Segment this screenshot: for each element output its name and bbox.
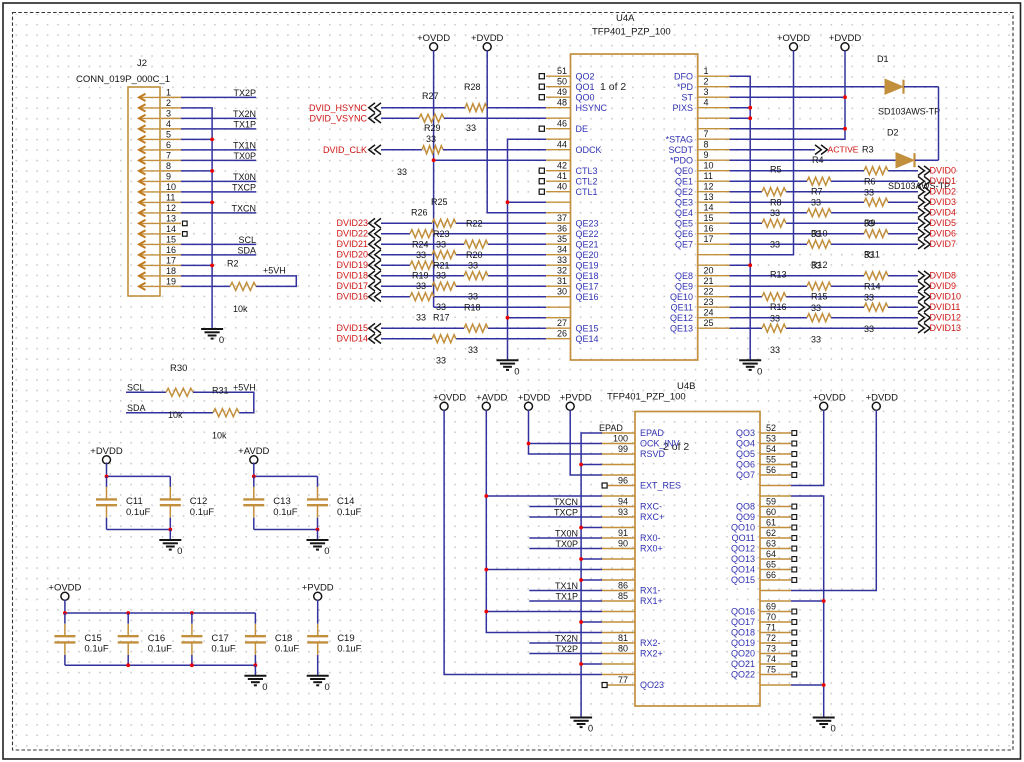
- svg-text:QE17: QE17: [576, 281, 599, 291]
- svg-text:19: 19: [166, 276, 176, 286]
- svg-text:DVID13: DVID13: [930, 323, 962, 333]
- resistor 33 on DVID6 line: [864, 230, 888, 238]
- svg-text:QE10: QE10: [670, 292, 693, 302]
- svg-text:8: 8: [166, 161, 171, 171]
- op-amp style IC body U4A: [571, 54, 698, 360]
- svg-text:CTL1: CTL1: [576, 187, 598, 197]
- wire SDA to R31: [126, 412, 213, 414]
- svg-text:QO18: QO18: [731, 628, 755, 638]
- svg-text:DVID5: DVID5: [930, 218, 957, 228]
- svg-text:+OVDD: +OVDD: [813, 393, 846, 404]
- net flag DVID4: [918, 208, 924, 218]
- wire TX0N from J2 pin 9: [181, 180, 256, 182]
- svg-text:EPAD: EPAD: [640, 428, 664, 438]
- junctions on C15-C18 bottom rail: [126, 663, 257, 667]
- svg-text:6: 6: [166, 140, 171, 150]
- svg-text:100: 100: [613, 434, 628, 444]
- U4A left pin numbers: [557, 66, 567, 339]
- svg-text:51: 51: [557, 66, 567, 76]
- svg-text:DVID16: DVID16: [336, 292, 368, 302]
- wire +DVDD down to unnumbered pin row16 right: [791, 410, 876, 591]
- U4A left pin names: [576, 71, 608, 344]
- svg-text:12: 12: [704, 182, 714, 192]
- svg-text:HSYNC: HSYNC: [576, 103, 608, 113]
- capacitor C12 0.1uF: [160, 476, 214, 529]
- svg-text:R28: R28: [464, 82, 481, 92]
- svg-text:RX2+: RX2+: [640, 649, 663, 659]
- svg-text:R31: R31: [212, 386, 229, 396]
- junctions on U4A right ground bus: [748, 106, 752, 267]
- svg-text:QE2: QE2: [675, 187, 693, 197]
- capacitor C17 0.1uF: [181, 613, 235, 665]
- U4A left resistor value labels 33: [416, 240, 478, 366]
- svg-text:QE3: QE3: [675, 197, 693, 207]
- svg-text:16: 16: [704, 224, 714, 234]
- svg-text:20: 20: [704, 266, 714, 276]
- svg-text:33: 33: [864, 188, 874, 198]
- net flag DVID2: [918, 187, 924, 197]
- junction DVDD row3: [843, 95, 847, 99]
- svg-text:0.1uF: 0.1uF: [84, 644, 108, 655]
- svg-text:DVID19: DVID19: [336, 260, 368, 270]
- svg-text:QE14: QE14: [576, 334, 599, 344]
- svg-text:3: 3: [704, 87, 709, 97]
- wire row5 to right ground bus: [730, 117, 751, 119]
- wire TX1N to U4B: [529, 590, 602, 592]
- svg-text:QO23: QO23: [640, 680, 664, 690]
- svg-text:*PD: *PD: [677, 82, 694, 92]
- resistor 33 on DVID2 line: [762, 188, 786, 196]
- svg-text:DVID_CLK: DVID_CLK: [323, 145, 367, 155]
- svg-text:7: 7: [166, 150, 171, 160]
- capacitor C14 0.1uF: [307, 476, 361, 529]
- svg-text:CTL2: CTL2: [576, 176, 598, 186]
- svg-text:R14: R14: [864, 282, 881, 292]
- svg-text:QE23: QE23: [576, 218, 599, 228]
- wire unnumbered row6 to DVDD rail: [730, 128, 846, 130]
- wire SCL to R30: [126, 391, 166, 393]
- svg-text:70: 70: [766, 612, 776, 622]
- svg-text:U4B: U4B: [677, 381, 695, 392]
- wire +PVDD to C19: [317, 600, 319, 614]
- svg-text:R22: R22: [466, 219, 483, 229]
- svg-text:0.1uF: 0.1uF: [337, 644, 361, 655]
- svg-text:QO4: QO4: [736, 439, 755, 449]
- svg-text:+AVDD: +AVDD: [476, 393, 507, 404]
- wire QE pin row17 to resistor: [730, 243, 808, 245]
- svg-text:33: 33: [416, 313, 426, 323]
- wire +DVDD rail down to unnumbered pin row7: [730, 50, 846, 139]
- svg-text:33: 33: [770, 208, 780, 218]
- svg-text:16: 16: [166, 245, 176, 255]
- U4A left resistor reference labels R17-R26: [411, 197, 483, 323]
- resistor 33 on DVID19 line: [410, 261, 434, 269]
- svg-text:QE15: QE15: [576, 323, 599, 333]
- svg-text:65: 65: [766, 560, 776, 570]
- wire +OVDD rail down U4A left: [433, 50, 435, 307]
- wire SCL from J2 pin 15: [181, 243, 256, 245]
- svg-text:QE16: QE16: [576, 292, 599, 302]
- U4A right resistor value labels 33: [770, 188, 874, 356]
- svg-text:DVID0: DVID0: [930, 166, 957, 176]
- svg-text:QO9: QO9: [736, 512, 755, 522]
- U4B left pin names: [640, 428, 681, 690]
- svg-text:R29: R29: [424, 123, 441, 133]
- svg-text:8: 8: [704, 140, 709, 150]
- svg-text:33: 33: [436, 356, 446, 366]
- wire unnumbered OVDD pin row23: [434, 306, 546, 308]
- svg-text:33: 33: [864, 293, 874, 303]
- svg-text:0: 0: [325, 682, 330, 693]
- junctions on J2 ground bus: [210, 138, 214, 268]
- svg-text:DVID6: DVID6: [930, 229, 957, 239]
- svg-text:10: 10: [704, 161, 714, 171]
- cap group C11/C12 bottom rail: [107, 529, 171, 531]
- svg-text:DVID4: DVID4: [930, 208, 957, 218]
- svg-text:17: 17: [704, 234, 714, 244]
- resistor R31 10k on SDA: [212, 386, 239, 441]
- svg-text:R23: R23: [433, 229, 450, 239]
- svg-text:+OVDD: +OVDD: [433, 393, 466, 404]
- svg-text:R19: R19: [412, 271, 429, 281]
- svg-text:R4: R4: [812, 155, 824, 165]
- wire unnumbered GND pin row24: [508, 317, 547, 319]
- wire GND corner unnumbered pin row7: [508, 139, 547, 360]
- resistor 33 on DVID10 line: [762, 293, 786, 301]
- svg-text:0: 0: [514, 367, 519, 378]
- wire DVID21 to QE resistor: [381, 243, 464, 245]
- U4B left pin stubs: [602, 433, 635, 685]
- wire DVID23 to QE resistor: [381, 222, 432, 224]
- resistor R29 33 on ODCK: [397, 123, 443, 177]
- svg-text:40: 40: [557, 182, 567, 192]
- capacitor C16 0.1uF: [118, 613, 172, 665]
- svg-text:DVID_HSYNC: DVID_HSYNC: [309, 103, 368, 113]
- wire QE pin row14 to resistor: [730, 212, 808, 214]
- wire +AVDD rail down to row20: [486, 410, 602, 633]
- svg-text:33: 33: [811, 229, 821, 239]
- svg-text:CTL3: CTL3: [576, 166, 598, 176]
- svg-text:7: 7: [704, 129, 709, 139]
- net flag DVID5: [918, 218, 924, 228]
- svg-text:91: 91: [618, 528, 628, 538]
- svg-text:TX0P: TX0P: [555, 539, 578, 549]
- resistor 33 on DVID8 line: [864, 272, 888, 280]
- svg-text:R17: R17: [433, 313, 450, 323]
- svg-text:QE5: QE5: [675, 218, 693, 228]
- svg-text:14: 14: [166, 224, 176, 234]
- svg-text:OCK_INV: OCK_INV: [640, 439, 680, 449]
- U4A right resistor reference labels R5-R16: [770, 165, 881, 313]
- net flag ACTIVE on SCDT: [730, 149, 816, 151]
- wire QE pin row12 to resistor: [730, 191, 763, 193]
- svg-text:60: 60: [766, 507, 776, 517]
- svg-text:15: 15: [704, 213, 714, 223]
- svg-text:QO17: QO17: [731, 617, 755, 627]
- svg-text:R16: R16: [770, 302, 787, 312]
- svg-text:QO0: QO0: [576, 92, 595, 102]
- svg-text:13: 13: [704, 192, 714, 202]
- svg-text:TXCN: TXCN: [554, 497, 579, 507]
- svg-text:TX2N: TX2N: [233, 109, 256, 119]
- svg-text:33: 33: [416, 281, 426, 291]
- wire GND unnumbered pin row23: [581, 663, 602, 665]
- U4A right pin stubs: [698, 76, 730, 328]
- connector J2 pin stubs: [161, 97, 181, 286]
- svg-text:34: 34: [557, 245, 567, 255]
- wire TXCP to U4B: [529, 516, 602, 518]
- svg-text:QO20: QO20: [731, 649, 755, 659]
- svg-text:QO12: QO12: [731, 544, 755, 554]
- wire QE pin row16 to resistor: [730, 233, 865, 235]
- wire unnumbered row25 right to ground bus: [791, 684, 824, 686]
- wire R27 to unnumbered pin row5: [444, 117, 546, 119]
- svg-text:QO14: QO14: [731, 565, 755, 575]
- svg-text:DVID23: DVID23: [336, 218, 368, 228]
- wire joining D1 and D2 cathodes: [938, 87, 940, 161]
- wire TX0P from J2 pin 7: [181, 159, 256, 161]
- wire TX2N to U4B: [529, 642, 602, 644]
- wire QE pin row23 to resistor: [730, 306, 865, 308]
- svg-text:30: 30: [557, 287, 567, 297]
- svg-text:80: 80: [618, 644, 628, 654]
- svg-text:RX2-: RX2-: [640, 638, 661, 648]
- junction GND row24: [506, 316, 510, 320]
- svg-text:DVID2: DVID2: [930, 187, 957, 197]
- svg-text:0: 0: [219, 335, 224, 346]
- resistor 33 on DVID7 line: [807, 240, 831, 248]
- resistor 33 on DVID1 line: [807, 177, 831, 185]
- capacitor C18 0.1uF: [245, 613, 299, 665]
- wire row19 to right ground bus: [730, 264, 751, 266]
- no-connect square U4B pin 96: [602, 483, 607, 488]
- junctions on C15-C18 top rail: [63, 611, 194, 615]
- svg-text:14: 14: [704, 203, 714, 213]
- svg-text:DVID11: DVID11: [930, 302, 961, 312]
- svg-text:R18: R18: [464, 303, 481, 313]
- svg-text:56: 56: [766, 465, 776, 475]
- capacitor C11 0.1uF: [96, 476, 150, 529]
- resistor 33 on DVID23 line: [432, 219, 456, 227]
- svg-text:SCL: SCL: [127, 383, 145, 393]
- svg-text:DVID8: DVID8: [930, 271, 957, 281]
- ground symbol 0 below U4A left: [497, 360, 519, 370]
- svg-text:2: 2: [704, 77, 709, 87]
- no-connect square J2 pin 13: [183, 221, 188, 226]
- svg-text:0: 0: [757, 367, 762, 378]
- svg-text:RX1+: RX1+: [640, 596, 663, 606]
- svg-text:TX2P: TX2P: [233, 88, 256, 98]
- wire DVID16 to QE resistor: [381, 296, 410, 298]
- svg-text:11: 11: [704, 171, 713, 181]
- svg-text:22: 22: [704, 287, 714, 297]
- capacitor C19 0.1uF: [307, 613, 361, 676]
- svg-text:U4A: U4A: [616, 13, 635, 24]
- wire TXCP from J2 pin 10: [181, 191, 256, 193]
- svg-text:24: 24: [704, 308, 714, 318]
- svg-text:52: 52: [766, 423, 776, 433]
- wire DVID20 to QE resistor: [381, 254, 432, 256]
- svg-text:33: 33: [557, 255, 567, 265]
- svg-text:TX1P: TX1P: [233, 120, 256, 130]
- wire TX1N from J2 pin 6: [181, 149, 256, 151]
- wire QE pin row20 to resistor: [730, 275, 865, 277]
- ground symbol 0 below C19: [307, 676, 329, 686]
- net flag DVID6: [918, 229, 924, 239]
- svg-text:53: 53: [766, 434, 776, 444]
- svg-text:QE22: QE22: [576, 229, 599, 239]
- resistor 33 on DVID17 line: [432, 282, 456, 290]
- svg-text:3: 3: [166, 108, 171, 118]
- svg-text:TXCN: TXCN: [232, 204, 257, 214]
- resistor 33 on DVID18 line: [464, 272, 488, 280]
- svg-text:C13: C13: [273, 496, 290, 507]
- wire +DVDD rail down to RSVD pin 99: [529, 410, 603, 454]
- svg-text:QO8: QO8: [736, 502, 755, 512]
- svg-text:C14: C14: [337, 496, 354, 507]
- svg-text:R3: R3: [862, 145, 874, 155]
- svg-text:QO16: QO16: [731, 607, 755, 617]
- svg-text:R2: R2: [227, 259, 239, 269]
- capacitor C13 0.1uF: [243, 476, 297, 529]
- U4A left pin stubs: [546, 76, 571, 339]
- wire DVID22 to QE resistor: [381, 233, 410, 235]
- junction DVDD row6: [843, 127, 847, 131]
- wire AVDD unnumbered pin row7: [486, 495, 602, 497]
- svg-text:75: 75: [766, 665, 776, 675]
- wire unnumbered row18 joins QE7 net: [730, 254, 794, 256]
- svg-text:+PVDD: +PVDD: [560, 393, 592, 404]
- svg-text:DVID17: DVID17: [336, 281, 368, 291]
- wire DVID_HSYNC to R28: [381, 107, 465, 109]
- wire TX2N from J2 pin 3: [181, 117, 256, 119]
- U4B left pin numbers: [613, 434, 628, 686]
- net flag DVID12: [918, 313, 924, 323]
- svg-text:RXC+: RXC+: [640, 512, 664, 522]
- svg-text:RX0-: RX0-: [640, 533, 661, 543]
- ground symbol 0 below U4B right: [813, 718, 835, 728]
- wire DVID19 to QE resistor: [381, 264, 410, 266]
- svg-text:DVID_VSYNC: DVID_VSYNC: [309, 114, 367, 124]
- U4B right pin numbers: [766, 423, 776, 675]
- wire QE pin row11 to resistor: [730, 180, 808, 182]
- wire ST pin3 to DVDD rail: [730, 96, 846, 98]
- svg-text:33: 33: [770, 345, 780, 355]
- wire QE pin row13 to resistor: [730, 201, 865, 203]
- svg-text:QO11: QO11: [732, 533, 755, 543]
- svg-text:54: 54: [766, 444, 776, 454]
- svg-text:0: 0: [588, 724, 593, 735]
- wire QE pin row24 to resistor: [730, 317, 808, 319]
- svg-text:DVID14: DVID14: [336, 334, 368, 344]
- svg-text:33: 33: [864, 324, 874, 334]
- diode D1 SD103AWS-TP on *PD: [730, 54, 941, 117]
- net flag DVID3: [918, 197, 924, 207]
- net flag DVID0: [918, 166, 924, 176]
- svg-text:TX1N: TX1N: [555, 581, 578, 591]
- svg-text:44: 44: [557, 140, 567, 150]
- cap group C15-C18 top rail: [65, 612, 256, 614]
- wire QE pin row22 to resistor: [730, 296, 763, 298]
- svg-text:0.1uF: 0.1uF: [275, 644, 299, 655]
- net flag DVID11: [918, 302, 924, 312]
- resistor R27 33 on VSYNC: [419, 91, 444, 144]
- wire TX0P to U4B: [529, 548, 602, 550]
- svg-text:1: 1: [166, 87, 171, 97]
- no-connect square J2 pin 14: [183, 232, 188, 237]
- svg-text:+DVDD: +DVDD: [866, 393, 899, 404]
- svg-text:SDA: SDA: [127, 403, 146, 413]
- svg-text:DVID10: DVID10: [930, 292, 962, 302]
- svg-text:85: 85: [618, 591, 628, 601]
- svg-text:C11: C11: [126, 496, 143, 507]
- svg-text:0: 0: [831, 724, 836, 735]
- IC body U4B: [635, 412, 760, 707]
- svg-text:66: 66: [766, 570, 776, 580]
- wire +OVDD to cap rail: [64, 600, 66, 614]
- svg-text:RX1-: RX1-: [640, 586, 661, 596]
- svg-text:SDA: SDA: [237, 246, 256, 256]
- wire OCK_INV pin 100 to DVDD rail: [529, 443, 603, 445]
- svg-text:C19: C19: [337, 633, 354, 644]
- resistor 33 on DVID4 line: [807, 209, 831, 217]
- svg-text:QE12: QE12: [670, 313, 693, 323]
- wire unnumbered GND pin row13: [508, 201, 547, 203]
- ground symbol 0 below U4A right: [739, 360, 761, 370]
- svg-text:0.1uF: 0.1uF: [148, 644, 172, 655]
- svg-text:R7: R7: [811, 187, 823, 197]
- resistor 33 on DVID15 line: [464, 324, 488, 332]
- wire +PVDD down to unnumbered pin row5: [570, 410, 602, 475]
- svg-text:R13: R13: [770, 270, 787, 280]
- svg-text:TXCP: TXCP: [232, 183, 256, 193]
- svg-text:TX0N: TX0N: [555, 529, 578, 539]
- svg-text:50: 50: [557, 77, 567, 87]
- svg-text:*STAG: *STAG: [666, 134, 693, 144]
- wire R28 to pin 48: [487, 107, 546, 109]
- svg-text:ODCK: ODCK: [576, 145, 602, 155]
- svg-text:42: 42: [557, 161, 567, 171]
- svg-text:QO21: QO21: [731, 659, 755, 669]
- wire EPAD to ground bus: [581, 433, 602, 718]
- ground symbol 0 below J2: [201, 329, 223, 339]
- net flag DVID13: [918, 323, 924, 333]
- junction OVDD row9: [432, 158, 436, 162]
- svg-text:5: 5: [166, 129, 171, 139]
- svg-text:DVID12: DVID12: [930, 313, 962, 323]
- svg-text:C15: C15: [84, 633, 101, 644]
- svg-text:33: 33: [436, 302, 446, 312]
- svg-text:71: 71: [766, 623, 776, 633]
- svg-text:QE6: QE6: [675, 229, 693, 239]
- svg-text:R24: R24: [412, 240, 429, 250]
- wire DFO pin1 to ground bus: [730, 76, 751, 360]
- wire TX0N to U4B: [529, 537, 602, 539]
- svg-text:CONN_019P_000C_1: CONN_019P_000C_1: [76, 74, 170, 85]
- resistor R2 10k on J2 pin 19: [181, 259, 256, 315]
- no-connect squares U4B right pins: [792, 431, 797, 677]
- svg-text:33: 33: [426, 134, 436, 144]
- svg-text:J2: J2: [137, 58, 147, 69]
- wire +DVDD to cap rail: [106, 463, 108, 477]
- wire +AVDD to cap rail: [253, 463, 255, 477]
- resistor 33 on DVID16 line: [410, 293, 434, 301]
- cap group C15-C18 bottom rail: [65, 664, 256, 666]
- svg-text:81: 81: [618, 633, 628, 643]
- wire DVID17 to QE resistor: [381, 285, 432, 287]
- svg-text:C17: C17: [211, 633, 228, 644]
- svg-text:33: 33: [436, 271, 446, 281]
